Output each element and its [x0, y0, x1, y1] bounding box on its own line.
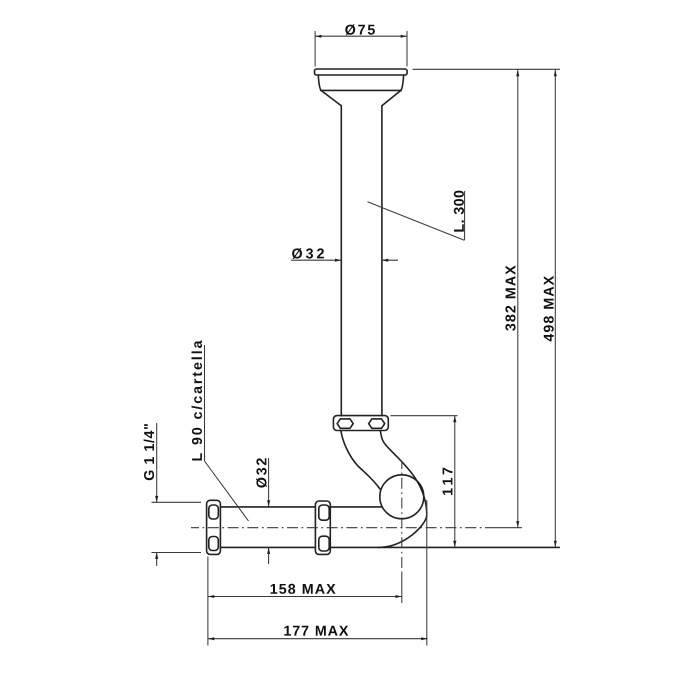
- arrow Ø32v right-pointing: [335, 259, 341, 262]
- arrow 117 bottom: [453, 541, 456, 547]
- dim Ø32 horizontal-pipe line upper: [268, 458, 270, 507]
- horizontal pipe top line segment 2: [331, 506, 383, 508]
- arrow 382 top: [516, 70, 519, 76]
- G ext line bottom: [152, 552, 202, 554]
- label 117: [443, 468, 453, 495]
- horizontal centerline solid end: [485, 527, 522, 529]
- flange taper left: [321, 90, 341, 105]
- underline L 90 c/cartella: [204, 345, 206, 461]
- arrow Ø32v left-pointing: [382, 259, 388, 262]
- middle flange top insert: [319, 505, 329, 520]
- dim Ø32 vertical-pipe leader line left: [291, 259, 341, 261]
- arrow G top pointing down: [155, 496, 158, 502]
- middle flange bottom insert: [319, 536, 329, 551]
- label O75: [345, 24, 375, 35]
- dim 117 line: [454, 416, 456, 547]
- dim 382 MAX line: [517, 70, 519, 528]
- horizontal pipe bottom line segment 2 extended right: [331, 546, 560, 548]
- arrow Ø75 left: [315, 35, 321, 38]
- trap nut body: [333, 416, 388, 431]
- trap inner left curve: [341, 431, 380, 490]
- trap nut left hex: [337, 419, 353, 428]
- horizontal centerline dashed part: [191, 527, 485, 529]
- arrow 117 top: [453, 416, 456, 422]
- arrow Ø75 right: [401, 35, 407, 38]
- middle flange body: [315, 501, 330, 554]
- vertical pipe right wall: [381, 106, 383, 416]
- top right extension line from flange: [413, 68, 561, 70]
- arrow 382 bottom: [516, 521, 519, 527]
- dim 498 MAX line: [554, 70, 556, 547]
- extension line from trap nut top: [391, 415, 458, 417]
- arrow 498 top: [554, 70, 557, 76]
- top flange rim: [315, 69, 408, 75]
- arrow Ø32h top pointing down: [267, 500, 270, 506]
- arrow Ø32h bottom pointing up: [267, 548, 270, 554]
- trap bulb circle: [380, 475, 424, 519]
- left extension line for 158/177: [207, 557, 209, 646]
- vertical pipe left wall: [340, 106, 342, 416]
- arrow 158 left: [208, 595, 214, 598]
- dim Ø75 right extension line: [406, 31, 408, 67]
- flange taper right: [382, 90, 401, 105]
- trap outer right curve: [378, 431, 427, 548]
- flange body bottom line: [321, 89, 402, 91]
- leader L.300: [368, 202, 465, 241]
- label O32 horizontal pipe: [256, 458, 267, 487]
- flange body right side: [401, 75, 404, 90]
- wall flange bottom insert: [209, 537, 219, 551]
- label 498 MAX: [544, 276, 554, 342]
- underline L.300: [464, 191, 466, 240]
- label L 90 c/cartella: [192, 340, 203, 460]
- dim Ø75 line: [315, 35, 407, 37]
- label L. 300: [454, 191, 464, 232]
- G ext line top: [152, 501, 202, 503]
- arrow 498 bottom: [554, 541, 557, 547]
- label G 1 1/4in: [144, 424, 155, 480]
- dim 158 line: [208, 596, 402, 598]
- dim Ø32 horizontal-pipe tail lower: [268, 548, 270, 564]
- dim Ø75 left extension line: [314, 31, 316, 67]
- horizontal pipe bottom line segment 1: [221, 546, 316, 548]
- vertical centerline dashed part: [401, 461, 403, 573]
- vertical centerline solid end: [401, 573, 403, 603]
- wall flange body: [207, 500, 221, 554]
- flange body left side: [318, 75, 321, 90]
- arrow 177 right: [421, 637, 427, 640]
- arrow 158 right: [395, 595, 401, 598]
- label O32 vertical pipe: [292, 248, 324, 259]
- wall flange top insert: [209, 505, 219, 519]
- arrow G bottom pointing up: [155, 553, 158, 559]
- arrowheads: [155, 35, 557, 641]
- dim Ø32 vertical-pipe arrow tail right: [382, 259, 398, 261]
- leader L 90 c/cartella: [205, 461, 249, 521]
- dim 177 line: [208, 638, 428, 640]
- right extension line for 177: [426, 500, 428, 646]
- horizontal pipe top line segment 1: [221, 506, 316, 508]
- label 382 MAX: [505, 265, 515, 330]
- label 177 MAX: [284, 626, 348, 636]
- arrow 177 left: [208, 637, 214, 640]
- centerlines: [191, 461, 522, 603]
- dim G 1 1/4 line upper: [156, 423, 158, 502]
- trap nut right hex: [369, 419, 385, 428]
- label 158 MAX: [271, 584, 336, 594]
- dim G 1 1/4 line lower tail: [156, 553, 158, 567]
